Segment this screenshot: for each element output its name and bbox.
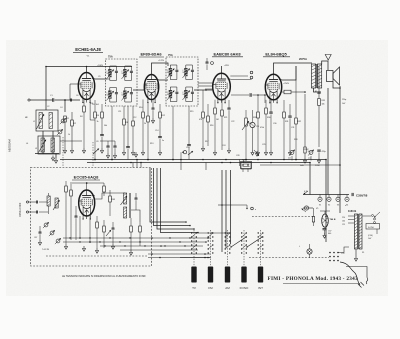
IF T1 tank 4 — [121, 88, 132, 103]
resistor R62 — [103, 183, 106, 196]
wire antenna lead — [30, 99, 52, 101]
wire C57 lead — [324, 230, 326, 233]
IF T2 tank 2 — [182, 65, 194, 80]
diode detector D1 — [182, 151, 193, 155]
arrow FM adj — [106, 230, 111, 236]
svg-text:C28: C28 — [236, 155, 239, 157]
pilot lamp T66B — [322, 214, 336, 227]
svg-text:C2: C2 — [47, 106, 49, 108]
volume pot R23 — [242, 110, 249, 160]
wire box2 gnd a — [43, 153, 45, 156]
wire heater feed drop — [339, 86, 341, 213]
power tiny labels — [299, 191, 364, 255]
svg-text:C55: C55 — [341, 253, 344, 255]
svg-text:INT: INT — [258, 286, 263, 290]
capacitor C35b — [352, 193, 353, 196]
svg-text:470k: 470k — [260, 127, 264, 129]
resistor R1 — [64, 116, 67, 148]
wire AVC drop left — [45, 67, 47, 111]
junction dots rows — [69, 237, 190, 246]
label tube V3 EABC80-6AK8 — [212, 51, 243, 57]
resistor R51 — [312, 208, 314, 226]
svg-text:220: 220 — [342, 217, 345, 219]
wire nested L3 — [157, 168, 194, 229]
wire heater bus 2 — [303, 207, 313, 209]
label V1 pin — [87, 56, 90, 58]
resistor R61 — [70, 184, 73, 240]
arrow heater left 2 — [302, 209, 307, 213]
terminal dipole b — [26, 211, 28, 213]
svg-text:+85V: +85V — [224, 65, 230, 67]
svg-text:50: 50 — [182, 72, 184, 74]
wire lamp top — [320, 211, 330, 214]
resistor R34 screen — [282, 90, 306, 94]
svg-text:C6: C6 — [76, 95, 78, 97]
svg-text:C67: C67 — [34, 237, 37, 239]
tube V1 — [78, 73, 94, 104]
dashed heater link — [252, 216, 313, 218]
resistor R26 — [256, 94, 259, 155]
svg-text:L3: L3 — [35, 148, 37, 150]
tube V3 — [213, 73, 231, 103]
svg-text:B1: B1 — [315, 91, 317, 93]
wire ground bus left — [35, 153, 59, 155]
wire nested ends — [185, 221, 199, 233]
wire switch h1 — [180, 257, 211, 259]
wire sec bottom — [355, 250, 357, 257]
phono switch box — [241, 160, 252, 169]
ground R2 — [70, 148, 73, 153]
svg-text:+253V: +253V — [303, 149, 309, 151]
svg-text:50: 50 — [167, 72, 169, 74]
ground C14 — [158, 150, 161, 155]
ground C57 — [323, 233, 326, 238]
label button INT — [258, 286, 263, 290]
svg-text:EABC80 6AK8: EABC80 6AK8 — [213, 51, 241, 56]
capacitor C30 cathode — [269, 100, 272, 155]
resistor R30 cathode — [264, 100, 267, 155]
svg-text:+170V: +170V — [158, 60, 165, 62]
wire V1 top cap — [86, 66, 88, 73]
capacitor C60 — [37, 201, 49, 204]
svg-text:50: 50 — [106, 73, 108, 75]
wire fuse leads — [309, 244, 311, 258]
IF T1 tank 2 — [121, 66, 132, 81]
component value labels — [33, 76, 346, 157]
note text — [62, 274, 146, 278]
svg-text:R17: R17 — [205, 141, 208, 143]
wire V4 screen — [282, 66, 296, 80]
resistor R9 — [132, 106, 135, 150]
switch linkage S3 — [227, 230, 229, 266]
svg-text:T66 B: T66 B — [330, 219, 336, 221]
wire osc stub — [218, 204, 232, 206]
heater pilot V4 — [345, 195, 349, 207]
wire dip b — [29, 211, 36, 213]
label button TV — [192, 286, 196, 290]
wire drop group c — [140, 163, 142, 168]
resistor R21 — [221, 100, 224, 150]
svg-text:FIMI - PHONOLA Mod. 1943 - 234: FIMI - PHONOLA Mod. 1943 - 2343 — [268, 276, 359, 282]
pushbutton AM — [225, 267, 230, 283]
wire box2 down b — [54, 154, 57, 163]
label L1 — [25, 117, 29, 119]
wire V2 plate out — [159, 79, 168, 81]
svg-text:R33: R33 — [294, 139, 297, 141]
svg-text:LE TENSIONI INDICATE SI RIFERI: LE TENSIONI INDICATE SI RIFERISCONO AL F… — [62, 274, 146, 278]
svg-text:CD 104: CD 104 — [92, 104, 100, 106]
svg-text:C356/7/8: C356/7/8 — [356, 194, 368, 198]
switch contacts S4 — [241, 232, 247, 253]
FM box inner dash — [46, 255, 148, 257]
svg-text:2075A: 2075A — [299, 57, 307, 61]
IF T1 tank 3 — [106, 88, 118, 103]
trimmer CV6 — [49, 230, 55, 236]
svg-text:FM: FM — [208, 286, 213, 290]
wire fm sol b — [148, 257, 210, 259]
svg-text:R8: R8 — [126, 122, 128, 124]
wire fm out rows c — [100, 245, 203, 247]
svg-text:AM: AM — [225, 286, 230, 290]
arrow AGC pot — [93, 149, 99, 155]
svg-text:V3: V3 — [337, 205, 339, 207]
svg-text:600: 600 — [328, 233, 331, 235]
svg-text:R63: R63 — [112, 199, 115, 201]
resistor R65 — [95, 216, 98, 253]
wire antenna lead 2 — [55, 99, 80, 101]
label antenna AE-OD-AM — [8, 139, 12, 152]
svg-text:1k: 1k — [97, 121, 99, 123]
node fm a — [79, 237, 91, 243]
wire nested L2 — [154, 168, 191, 226]
capacitor C61 — [37, 211, 49, 214]
pushbutton TV — [191, 267, 196, 283]
wire B+ bus lower — [87, 162, 310, 164]
ground C7 — [100, 148, 103, 153]
label tube V1 ECH81-6AJ8 — [73, 47, 103, 53]
ground R9 — [131, 150, 134, 155]
IF T2 tank 3 — [167, 87, 179, 102]
wire long v c — [230, 170, 232, 244]
capacitor C16 — [113, 141, 116, 158]
resistor R16 — [207, 104, 210, 146]
svg-text:DIPOLO 300: DIPOLO 300 — [19, 202, 22, 217]
svg-text:R15: R15 — [190, 111, 193, 113]
label tube V2 EF89-6DA6 — [139, 52, 164, 58]
mains plug — [358, 282, 364, 288]
wire heater bus — [303, 194, 349, 196]
wire bus right drop — [325, 160, 327, 243]
resistor R2 — [71, 112, 74, 148]
wire grid row — [60, 140, 82, 142]
svg-text:+180V: +180V — [97, 65, 104, 67]
IF transformer T2 box — [166, 57, 198, 106]
svg-text:R2: R2 — [74, 123, 76, 125]
wire T2 out — [194, 89, 213, 91]
resistor R12 — [159, 104, 162, 136]
svg-text:75A: 75A — [168, 53, 173, 57]
wire V4 grid drop — [264, 95, 266, 103]
resistor R60 — [64, 181, 67, 249]
arrow bus adj — [254, 150, 259, 156]
svg-text:50: 50 — [121, 95, 123, 97]
wire antenna drop — [64, 100, 66, 112]
label dipolo — [19, 202, 22, 217]
svg-text:R32: R32 — [298, 121, 301, 123]
wire nested L4 — [161, 168, 199, 233]
power transformer T4 — [355, 214, 363, 249]
label R12 — [162, 115, 165, 117]
label C356-7-8 — [356, 194, 368, 198]
capacitor C20 top — [206, 58, 214, 70]
ground V2 k — [141, 150, 144, 155]
wire OPT bottom — [314, 88, 322, 92]
IF transformer T1 box — [106, 59, 138, 106]
trimmer CV1 — [60, 118, 66, 124]
capacitor C7 — [100, 135, 104, 149]
resistor R7 — [101, 104, 104, 134]
wire box1 to gnd bus a — [42, 131, 44, 154]
svg-text:osc: osc — [308, 158, 311, 160]
switch linkage S5 — [260, 230, 262, 266]
svg-text:EL84-6BQ5: EL84-6BQ5 — [265, 51, 287, 56]
wire mid h2 — [205, 163, 207, 171]
svg-text:C29: C29 — [262, 144, 265, 146]
dashed gang link a — [62, 137, 64, 167]
svg-text:C22: C22 — [231, 121, 234, 123]
wire grid row2 — [100, 140, 115, 142]
resistor R8 — [123, 106, 126, 150]
svg-text:1M: 1M — [216, 119, 219, 121]
svg-text:V1: V1 — [319, 205, 321, 207]
resistor R68 — [139, 222, 142, 246]
IF T2 tank 1 — [167, 65, 179, 80]
svg-text:ECC85-6AQ8: ECC85-6AQ8 — [74, 175, 99, 180]
wire box1 to gnd bus b — [52, 131, 54, 154]
ground mid — [255, 151, 258, 156]
svg-text:R35: R35 — [322, 100, 325, 102]
jack triangle — [325, 55, 331, 61]
switch cross link b — [246, 236, 262, 247]
svg-text:C4: C4 — [60, 107, 62, 109]
svg-text:R10: R10 — [139, 107, 142, 109]
svg-text:50: 50 — [106, 95, 108, 97]
wire T5 feed — [95, 193, 125, 199]
pushbutton FM — [208, 267, 213, 283]
box oscillator pad — [241, 163, 251, 170]
wire mid right link — [260, 164, 340, 166]
wire T1 b1 — [111, 106, 113, 160]
wire bus right drop 2 — [309, 163, 311, 195]
ground main bus — [51, 156, 54, 161]
svg-text:TV: TV — [192, 286, 196, 290]
svg-text:C30: C30 — [273, 123, 276, 125]
label +205V — [224, 65, 230, 67]
resistor R20 — [213, 100, 216, 156]
output transformer T3 — [312, 64, 322, 88]
squiggle — [366, 278, 368, 285]
svg-text:S-250: S-250 — [368, 227, 375, 229]
capacitor C67 — [38, 226, 41, 245]
wire V5 k1 — [79, 216, 81, 238]
label selector box — [366, 224, 380, 230]
capacitor C15 — [106, 141, 109, 158]
title text — [268, 276, 359, 282]
capacitor C31 — [288, 104, 291, 155]
wire T5 out — [131, 210, 140, 222]
label fuse val — [368, 235, 373, 240]
resistor R6 — [94, 100, 97, 148]
fuse lamp — [307, 249, 312, 254]
wire V5 top — [70, 182, 104, 190]
svg-text:R1: R1 — [67, 118, 69, 120]
wire det — [180, 152, 182, 159]
svg-text:EF89-6DA6: EF89-6DA6 — [140, 52, 162, 57]
wire fono drops — [243, 169, 248, 173]
capacitor C57 — [323, 229, 332, 236]
capacitor C35 — [317, 92, 320, 93]
wire OPT sec to speaker — [322, 61, 328, 70]
svg-text:C24: C24 — [222, 145, 225, 147]
wire screen feed drop — [327, 88, 329, 195]
capacitor C62 — [75, 206, 78, 240]
svg-text:10k: 10k — [322, 104, 325, 106]
wire drop group b — [136, 160, 138, 168]
svg-text:50: 50 — [121, 73, 123, 75]
label button FM — [208, 286, 213, 290]
label C67 — [34, 237, 37, 239]
switch top rail — [196, 232, 229, 233]
switch cross link a — [230, 236, 246, 247]
wire T1 b2 — [127, 106, 129, 146]
svg-text:V2: V2 — [328, 205, 330, 207]
label tube V5 ECC85-6AQ8 — [72, 175, 100, 181]
resistor R36 — [300, 94, 311, 167]
svg-text:R6: R6 — [97, 115, 99, 117]
dashed link to mains — [249, 257, 329, 259]
trimmer CT2 — [308, 150, 314, 161]
wire speaker return — [333, 82, 341, 89]
resistor R63 — [109, 190, 112, 216]
label +250V — [283, 83, 290, 85]
arrow heater left — [304, 191, 309, 194]
svg-text:C51: C51 — [256, 126, 259, 128]
switch linkage S2 — [210, 230, 212, 266]
wire T1 out — [133, 89, 144, 91]
label button FONO — [240, 286, 249, 290]
label +180V — [97, 65, 104, 67]
resistor R31 — [283, 100, 286, 160]
wire osc drop a — [239, 160, 241, 167]
capacitor C13 — [151, 100, 154, 123]
capacitor C10 — [126, 147, 130, 160]
capacitor C37 — [315, 150, 326, 167]
svg-text:C8: C8 — [96, 141, 98, 143]
node T1 bus — [111, 159, 113, 161]
wire V1 grid in — [70, 84, 78, 100]
wire title bracket — [346, 267, 367, 278]
svg-text:halto: halto — [300, 164, 304, 167]
trimmer CV5 — [43, 222, 49, 228]
svg-text:o: o — [255, 209, 256, 211]
wire osc drop b — [243, 160, 245, 164]
node ant junction — [45, 66, 47, 68]
resistor R35 tone — [318, 66, 325, 147]
svg-text:C11: C11 — [118, 111, 121, 113]
svg-text:C9: C9 — [98, 76, 100, 78]
capacitor C14 — [158, 137, 162, 151]
ground V1 cathode — [82, 148, 85, 153]
label R2 — [74, 123, 76, 125]
wire V1 k drop — [90, 100, 95, 121]
IF T1 tank 1 — [106, 66, 118, 81]
svg-text:50k: 50k — [104, 125, 107, 127]
label R8 — [126, 122, 128, 124]
svg-text:R31: R31 — [285, 121, 288, 123]
svg-text:C31: C31 — [291, 127, 294, 129]
pushbutton FONO — [241, 267, 246, 283]
svg-text:75A: 75A — [108, 55, 113, 59]
tube V4 — [265, 74, 281, 103]
svg-text:ECH81-6AJ8: ECH81-6AJ8 — [75, 47, 101, 52]
wire B+ bus upper — [60, 159, 326, 161]
switch linkage S4 — [243, 230, 245, 266]
title underline dash — [283, 283, 360, 285]
svg-text:470p: 470p — [322, 151, 326, 153]
switch contacts S2 — [208, 232, 214, 253]
svg-text:50: 50 — [182, 94, 184, 96]
svg-text:220p: 220p — [342, 99, 346, 101]
svg-text:R13: R13 — [150, 143, 153, 145]
capacitor C25 coupling — [231, 93, 266, 97]
junction dots bus — [64, 99, 341, 184]
coil box L3 L4 oscillator — [38, 136, 60, 154]
label L3 — [26, 143, 29, 145]
terminal V3 right a — [250, 71, 253, 74]
svg-text:L1: L1 — [33, 121, 35, 123]
svg-text:AE/OD/AM: AE/OD/AM — [8, 139, 12, 152]
tube V5 — [79, 190, 95, 220]
label 1163B — [348, 209, 356, 213]
resistor R66 — [103, 220, 106, 248]
electrolytic C51 — [250, 110, 259, 155]
IF T2 tank 4 — [182, 87, 194, 102]
node V1 bus — [94, 159, 96, 161]
label +170V — [158, 60, 165, 62]
svg-text:160: 160 — [342, 221, 345, 223]
terminal antenna — [28, 99, 30, 101]
wire V3 right rows — [230, 76, 251, 80]
svg-text:V5: V5 — [316, 208, 318, 210]
svg-text:R12: R12 — [162, 115, 165, 117]
wire V5 k2 — [89, 216, 91, 242]
svg-text:7-61 2B: 7-61 2B — [42, 249, 50, 251]
terminal osc — [232, 205, 256, 211]
capacitor C22 — [227, 100, 230, 153]
wire fm sol a — [148, 253, 210, 255]
heater pilot V1 — [318, 195, 322, 207]
svg-text:C19: C19 — [186, 147, 189, 149]
label R1 — [67, 118, 69, 120]
label T2 75A — [168, 53, 173, 57]
wire T1 feed — [107, 78, 110, 80]
svg-text:R16: R16 — [210, 125, 213, 127]
terminal V3 right b — [250, 76, 253, 79]
resistor R11 — [147, 102, 150, 150]
svg-text:L: L — [299, 246, 300, 248]
wire V3 plate up — [221, 66, 223, 73]
svg-text:torn: torn — [288, 157, 291, 160]
